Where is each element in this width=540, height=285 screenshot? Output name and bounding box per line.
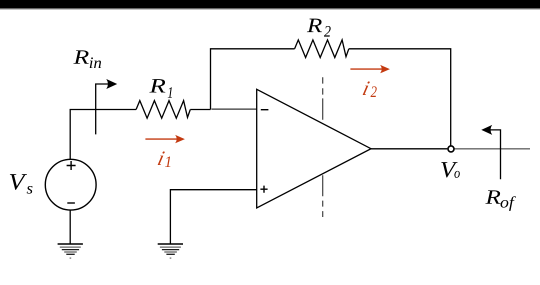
op-amp plus sign [260,186,267,193]
dashed axis line through op-amp [322,77,324,119]
label R_in sub [90,57,101,68]
label i_1 main [158,151,165,165]
wire: feedback left vertical (node to top rail) [211,49,295,110]
current arrow i2 [350,65,390,73]
node Vo open circle [448,146,454,152]
label V_o sub [454,171,459,178]
wire: op-amp output to right edge [371,148,447,150]
wire: R2 to feedback right vertical down to output node [349,49,451,146]
voltage source VS circle [45,159,96,210]
R_in measurement arrow [96,79,118,134]
label R_2 main [307,19,322,32]
label i_2 sub [371,86,377,97]
top black bar [0,0,540,8]
label R_of sub [501,196,516,211]
current arrow i1 [145,135,185,143]
label V_s sub [27,186,33,194]
label R_2 sub [324,26,331,37]
wire: ground2 up and right to op-amp non-inverting input [170,190,256,244]
ground 1 (below VS) [58,244,83,258]
op-amp U1 triangle [257,89,371,208]
resistor R2 [295,40,349,58]
wire: Vs bottom to ground1 [69,210,71,244]
resistor R1 [136,101,190,119]
wire: Vs top to input corner to R1 [70,110,136,160]
label V_s main [10,174,27,190]
op-amp minus sign [261,109,269,111]
label R_1 main [149,79,165,92]
R_of measurement arrow [481,125,500,179]
ground 2 (non-inverting input) [158,244,183,258]
label i_1 sub [165,156,170,167]
VS plus sign [67,161,76,170]
label i_2 main [363,81,370,95]
VS minus sign [67,202,75,204]
label R_1 sub [168,87,172,98]
label R_of main [485,190,500,203]
label V_o main [441,162,457,177]
label R_in main [73,50,88,63]
wire: R1 to node to op-amp inverting input [190,109,210,111]
